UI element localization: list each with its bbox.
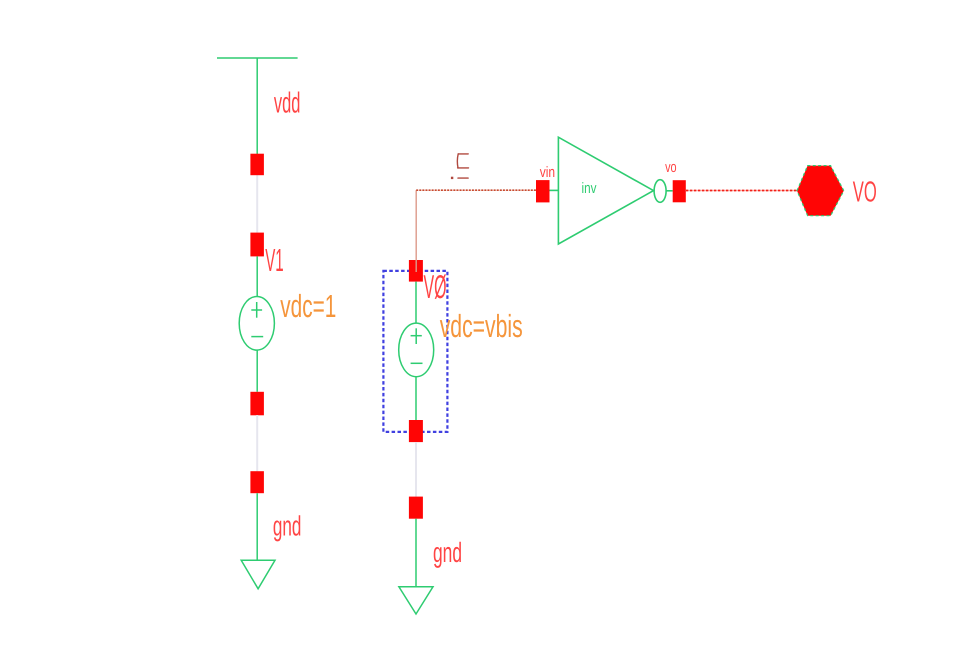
pin V0 PLUS — [409, 260, 423, 282]
svg-text:vdc=vbis: vdc=vbis — [440, 308, 523, 344]
wire net vo: pale underlay — [686, 190, 798, 192]
wire vdd pin to V1 plus pin — [256, 170, 258, 240]
pin vin of inverter — [536, 180, 550, 202]
wire net in: vertical segment — [415, 190, 417, 272]
wire net in: horizontal pale underlay — [416, 189, 543, 191]
pin of middle gnd symbol — [409, 497, 423, 519]
wire net in: horizontal dashed segment — [416, 189, 543, 191]
svg-text:vdc=1: vdc=1 — [280, 288, 336, 324]
svg-text:inv: inv — [582, 180, 597, 197]
voltage source V0 (vdc) — [399, 282, 434, 420]
selection box around V0 — [383, 271, 447, 432]
middle gnd symbol — [399, 519, 433, 614]
wire V0 minus to gnd pin — [415, 442, 417, 497]
inverter U: output bubble — [654, 180, 666, 203]
svg-text:vdd: vdd — [274, 88, 301, 120]
pin V0 MINUS — [409, 420, 423, 442]
pin of left gnd symbol — [250, 471, 264, 493]
svg-text:gnd: gnd — [433, 537, 462, 568]
pin of vdd symbol — [250, 154, 264, 176]
svg-text:vo: vo — [665, 159, 677, 176]
svg-text:gnd: gnd — [273, 511, 302, 542]
net label in (rotated) — [457, 154, 468, 178]
output pin VO hexagon — [797, 166, 844, 216]
wire V1 minus to gnd pin — [256, 415, 258, 472]
inverter U: triangle — [558, 137, 653, 244]
svg-text:VØ: VØ — [424, 268, 447, 305]
pin V1 MINUS — [250, 392, 264, 416]
svg-text:VO: VO — [853, 177, 877, 209]
svg-text:vin: vin — [540, 164, 555, 181]
pin vo of inverter — [673, 180, 686, 202]
voltage source V1 (vdc) — [239, 256, 274, 391]
inverter U: input stub — [550, 189, 559, 191]
left gnd symbol — [241, 493, 275, 589]
inverter U: output stub — [666, 190, 673, 192]
vdd power symbol — [217, 58, 298, 165]
pin V1 PLUS — [250, 233, 264, 257]
svg-text:V1: V1 — [265, 242, 284, 278]
wire net vo: dashed to output pin symbol — [686, 190, 798, 192]
